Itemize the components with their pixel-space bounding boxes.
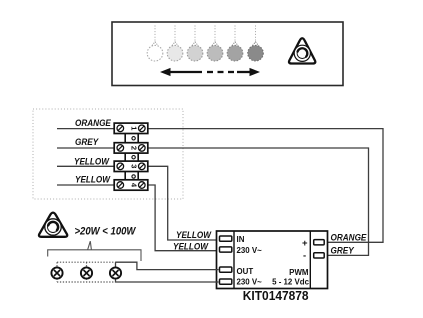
PWM driver U1 body — [217, 231, 328, 289]
hanging lamp 5 — [227, 26, 243, 62]
svg-text:OUT: OUT — [237, 267, 254, 276]
svg-text:ORANGE: ORANGE — [75, 118, 112, 129]
load capacity bracket — [48, 241, 141, 261]
wire orange left — [57, 128, 115, 130]
dimmer icon (panel) — [289, 38, 315, 63]
wire grey return (row2 to - terminal) — [148, 148, 369, 255]
driver terminal OUT L — [220, 267, 232, 272]
lamp L3 — [110, 267, 121, 278]
brightness range arrow — [160, 68, 260, 76]
screw terminals row 3 — [117, 163, 145, 170]
wire yellow left (row 3) — [57, 165, 115, 167]
wire yellow left (row 4) — [57, 184, 115, 186]
lamp L2 — [81, 267, 92, 278]
hanging lamp 6 (full) — [248, 26, 264, 62]
junction bead 2-3 — [132, 156, 135, 159]
svg-text:ORANGE: ORANGE — [330, 232, 367, 243]
driver terminal IN N — [220, 247, 232, 252]
wire yellow feed (row3 to IN L) — [148, 166, 219, 240]
wire OUT N to lamps — [116, 279, 219, 282]
junction bead 3-4 — [132, 175, 135, 178]
hanging lamp 4 — [207, 26, 223, 62]
driver terminal OUT N — [220, 279, 232, 284]
hanging lamp 1 (off) — [147, 26, 163, 62]
svg-text:YELLOW: YELLOW — [74, 156, 110, 167]
svg-text:3: 3 — [130, 164, 139, 168]
svg-text:IN: IN — [237, 235, 245, 244]
terminal block TB1 — [114, 123, 148, 190]
lamp L1 stubs — [56, 262, 58, 282]
wire yellow feed (row4 to IN N) — [148, 185, 219, 251]
svg-text:PWM: PWM — [289, 268, 308, 277]
svg-text:+: + — [302, 238, 308, 249]
hanging lamp 2 — [167, 26, 183, 62]
svg-text:-: - — [303, 250, 306, 261]
junction bead 1-2 — [132, 137, 135, 140]
svg-text:YELLOW: YELLOW — [75, 174, 111, 185]
svg-text:GREY: GREY — [75, 137, 99, 148]
hanging lamp 3 — [187, 26, 203, 62]
illustration panel frame — [112, 22, 343, 86]
driver terminal IN L — [220, 236, 232, 241]
dashed link top rail — [57, 261, 116, 263]
driver terminal + — [314, 240, 325, 245]
screw terminals row 1 — [117, 125, 145, 132]
svg-text:YELLOW: YELLOW — [176, 230, 212, 241]
lamp L2 stubs — [86, 262, 88, 282]
screw terminals row 4 — [117, 182, 145, 189]
svg-text:GREY: GREY — [330, 245, 354, 256]
screw terminals row 2 — [117, 145, 145, 152]
lamp L1 — [51, 267, 62, 278]
svg-text:2: 2 — [130, 146, 139, 150]
lamp L3 stub top — [115, 262, 117, 267]
svg-text:>20W < 100W: >20W < 100W — [75, 226, 137, 238]
wire orange return (row1 to + terminal) — [148, 129, 383, 243]
dashed enclosure (wall box) — [33, 109, 183, 199]
svg-text:1: 1 — [130, 126, 139, 130]
wire OUT L to lamps — [116, 262, 219, 269]
driver terminal - — [314, 253, 325, 258]
wire grey left — [57, 147, 115, 149]
svg-text:230 V~: 230 V~ — [237, 246, 262, 255]
svg-text:YELLOW: YELLOW — [173, 241, 209, 252]
svg-text:230 V~: 230 V~ — [237, 277, 262, 286]
svg-text:KIT0147878: KIT0147878 — [243, 289, 309, 304]
svg-text:5 - 12 Vdc: 5 - 12 Vdc — [272, 277, 309, 286]
dimmer icon (rating) — [39, 213, 67, 237]
dashed link bottom rail — [57, 281, 116, 283]
